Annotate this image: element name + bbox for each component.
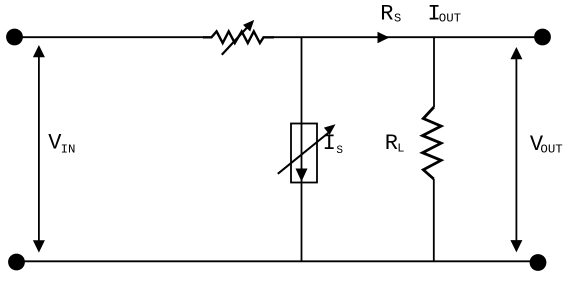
current direction arrow on top wire [378,32,390,43]
svg-text:R: R [385,131,398,156]
node: input bottom terminal [8,254,25,271]
wire: load branch vertical top lead [433,37,435,107]
svg-text:S: S [336,145,343,157]
svg-text:OUT: OUT [439,12,461,26]
svg-text:R: R [380,2,393,27]
current source IS (variable) [278,124,336,183]
svg-text:IN: IN [61,142,76,156]
resistor RL zigzag [423,107,442,179]
wire: top rail left segment [15,36,205,38]
node: input top terminal [6,29,23,46]
VIN measurement arrow (double headed) [33,45,45,253]
svg-text:S: S [394,12,401,26]
node: output bottom terminal [530,254,547,271]
VOUT measurement arrow (double headed) [510,47,522,252]
svg-text:I: I [323,131,336,156]
wire: top rail right segment [273,36,543,38]
svg-text:OUT: OUT [540,143,562,157]
wire: bottom rail [17,260,539,262]
wire: load branch vertical bottom lead [433,179,435,261]
wire: shunt branch vertical [301,37,303,261]
variable resistor RS (series rheostat) [203,20,274,55]
node: output top terminal [534,29,551,46]
svg-text:L: L [397,142,404,156]
